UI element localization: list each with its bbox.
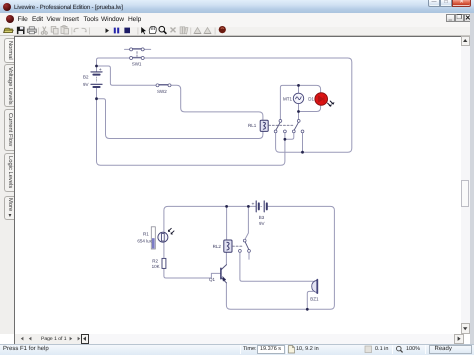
svg-text:9V: 9V [259,221,265,226]
svg-text:Q1: Q1 [209,277,216,282]
svg-text:R1: R1 [143,231,149,236]
svg-text:D1: D1 [308,97,314,102]
svg-text:RL1: RL1 [248,123,257,128]
svg-text:MT1: MT1 [283,97,292,102]
svg-text:SW2: SW2 [157,89,167,94]
svg-text:BZ1: BZ1 [310,296,319,301]
svg-text:654 lux: 654 lux [137,238,152,243]
svg-text:SW1: SW1 [132,62,142,67]
svg-text:RL2: RL2 [213,244,222,249]
svg-text:B2: B2 [83,75,89,80]
svg-text:+: + [252,201,255,207]
svg-text:10K: 10K [152,264,160,269]
svg-text:B3: B3 [259,215,265,220]
svg-text:+: + [99,68,102,73]
svg-text:9V: 9V [83,82,89,87]
